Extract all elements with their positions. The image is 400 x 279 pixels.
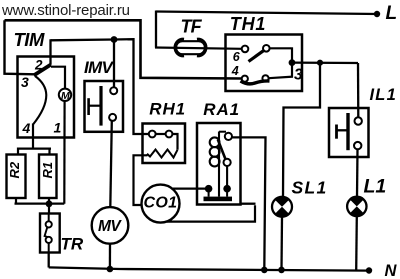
node RA1 left pin (205, 185, 213, 193)
svg-text:TF: TF (181, 17, 203, 37)
switch TIM arm 2-3 (34, 65, 51, 76)
wire CO1 bottom lead (167, 205, 255, 221)
svg-text:TR: TR (61, 235, 84, 254)
wire N rail (49, 267, 369, 270)
wire node 2 horizontal (51, 39, 150, 134)
wire TH1 pin 4 to node 3 (269, 77, 293, 79)
svg-text:TIM: TIM (14, 29, 45, 50)
resistor R1 (39, 155, 57, 199)
wire IL1 to L1 (356, 149, 359, 197)
thermostat TH1 box (226, 35, 303, 92)
wire M top lead (51, 67, 65, 89)
motor M (59, 89, 71, 102)
push button IL1 (329, 108, 369, 157)
wire TIM top to TH1 pin 4 (5, 20, 243, 78)
svg-text:3: 3 (21, 74, 29, 90)
node N terminal (366, 267, 372, 273)
node TR junction (46, 200, 53, 207)
svg-text:1: 1 (54, 120, 62, 136)
resistor R2 (7, 155, 26, 199)
wire IMV to MV (110, 121, 112, 207)
node RA1 right pin (223, 185, 231, 193)
wire resistor bottom bar (15, 198, 65, 204)
svg-text:M: M (61, 90, 70, 102)
wire RH1 to CO1 (134, 155, 148, 205)
wire TIM pin 3 loop (left) (5, 20, 35, 74)
svg-text:L: L (386, 3, 398, 24)
contact TH1 pin 4 (241, 75, 270, 84)
wire SL1 to N (280, 217, 283, 270)
wire TIM pin 4 drop (32, 124, 34, 150)
node MV-N junction (107, 266, 114, 273)
wire node 2 drop into TIM (49, 39, 51, 65)
wire CO1 to RA1 coil (172, 188, 206, 190)
contact TH1 pin 6 (242, 45, 270, 62)
wire TH1 contact 6 to node 3 (270, 47, 292, 49)
push button IMV (85, 81, 124, 132)
wire L1 to N (355, 216, 358, 270)
compressor CO1 (142, 185, 180, 223)
node SL1-N junction (278, 267, 285, 274)
svg-text:www.stinol-repair.ru: www.stinol-repair.ru (1, 2, 130, 19)
svg-text:MV: MV (98, 218, 122, 235)
timer TIM box (18, 57, 75, 138)
wire node 3 to IL1 (292, 61, 358, 64)
svg-text:2: 2 (34, 58, 43, 73)
node RA1-N junction (261, 267, 268, 274)
wire TR drop (48, 204, 50, 214)
svg-text:4: 4 (22, 120, 31, 136)
switch TIM arm to 4 (33, 76, 46, 125)
node TH1 pin 3 (289, 59, 296, 66)
svg-text:N: N (385, 262, 398, 279)
node IMV junction (111, 36, 118, 43)
wire L rail to TF (155, 11, 157, 48)
wire node 3 vertical (291, 47, 293, 77)
svg-text:RH1: RH1 (149, 100, 186, 119)
svg-text:CO1: CO1 (144, 195, 178, 212)
svg-text:IL1: IL1 (370, 86, 397, 104)
wire TIM pin 1 drop (63, 101, 65, 204)
wire R1 bottom stub (48, 198, 50, 204)
wire L rail (156, 12, 377, 15)
wire SL1 branch (283, 63, 320, 198)
start relay RA1 contact (218, 132, 232, 186)
svg-text:SL1: SL1 (292, 178, 328, 198)
svg-text:RA1: RA1 (203, 100, 240, 119)
svg-text:TH1: TH1 (230, 14, 266, 34)
wire RA1 contact to N (232, 137, 265, 270)
svg-text:R2: R2 (7, 161, 22, 178)
node SL1 branch junction (317, 60, 323, 66)
defrost heater relay RH1 (143, 124, 186, 164)
start relay RA1 coil (210, 132, 220, 197)
wire TR to N rail (48, 253, 50, 268)
svg-text:R1: R1 (40, 162, 55, 179)
svg-text:3: 3 (294, 67, 303, 84)
svg-text:L1: L1 (364, 176, 387, 198)
thermal relay TR (40, 214, 60, 253)
lamp L1 (347, 197, 366, 217)
svg-text:4: 4 (231, 64, 239, 78)
start relay RA1 bridge bar (204, 190, 233, 201)
wire MV to N (109, 244, 111, 270)
wire resistor top bar (18, 149, 51, 155)
lamp SL1 (272, 197, 292, 217)
node L terminal (374, 11, 380, 17)
thermal fuse TF (155, 39, 242, 55)
svg-text:6: 6 (233, 50, 241, 64)
wire IL1 drop (357, 63, 360, 118)
wire IMV top feed (113, 40, 115, 88)
start relay RA1 box (197, 123, 256, 205)
svg-text:IMV: IMV (84, 58, 114, 77)
fan motor MV (92, 207, 129, 244)
